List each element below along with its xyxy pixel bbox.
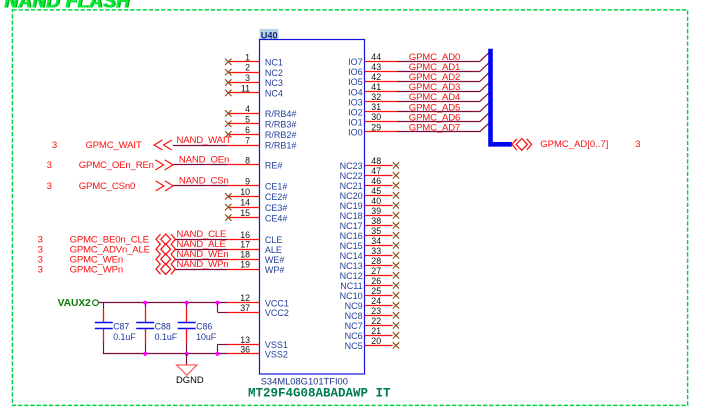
svg-text:1: 1 [245, 52, 250, 62]
svg-text:C86: C86 [196, 322, 212, 332]
svg-text:25: 25 [371, 286, 381, 296]
svg-text:3: 3 [47, 181, 52, 192]
svg-text:NC12: NC12 [340, 271, 363, 281]
svg-text:8: 8 [245, 155, 250, 165]
svg-text:IO4: IO4 [348, 87, 363, 97]
svg-text:R/RB1#: R/RB1# [265, 141, 297, 151]
svg-text:18: 18 [240, 250, 250, 260]
svg-text:29: 29 [371, 122, 381, 132]
svg-text:42: 42 [371, 72, 381, 82]
svg-text:IO7: IO7 [348, 57, 363, 67]
svg-text:23: 23 [371, 306, 381, 316]
svg-text:NC4: NC4 [265, 89, 283, 99]
svg-text:S34ML08G101TFI00: S34ML08G101TFI00 [261, 377, 348, 387]
svg-text:NAND_WAIT: NAND_WAIT [177, 135, 232, 146]
svg-text:VCC2: VCC2 [265, 308, 289, 318]
svg-text:CE3#: CE3# [265, 203, 288, 213]
svg-text:NC14: NC14 [340, 251, 363, 261]
svg-text:C88: C88 [155, 322, 171, 332]
svg-text:44: 44 [371, 52, 381, 62]
svg-text:U40: U40 [261, 31, 278, 41]
svg-text:R/RB4#: R/RB4# [265, 109, 297, 119]
svg-text:RE#: RE# [265, 161, 283, 171]
svg-text:3: 3 [635, 139, 640, 150]
svg-text:NC8: NC8 [345, 311, 363, 321]
svg-text:30: 30 [371, 112, 381, 122]
svg-text:DGND: DGND [176, 374, 204, 385]
svg-text:10uF: 10uF [196, 332, 217, 342]
svg-text:37: 37 [240, 303, 250, 313]
svg-text:NC23: NC23 [340, 161, 363, 171]
svg-text:NC1: NC1 [265, 58, 283, 68]
svg-text:VSS2: VSS2 [265, 350, 288, 360]
svg-text:43: 43 [371, 62, 381, 72]
svg-text:NC6: NC6 [345, 331, 363, 341]
svg-text:NC17: NC17 [340, 221, 363, 231]
svg-text:6: 6 [245, 125, 250, 135]
svg-text:R/RB3#: R/RB3# [265, 120, 297, 130]
svg-text:NAND FLASH: NAND FLASH [4, 0, 131, 12]
svg-text:32: 32 [371, 92, 381, 102]
svg-text:VCC1: VCC1 [265, 298, 289, 308]
svg-text:NC13: NC13 [340, 261, 363, 271]
svg-text:45: 45 [371, 186, 381, 196]
svg-text:NC21: NC21 [340, 181, 363, 191]
svg-text:NAND_OEn: NAND_OEn [179, 155, 229, 166]
svg-text:R/RB2#: R/RB2# [265, 130, 297, 140]
svg-text:12: 12 [240, 293, 250, 303]
svg-text:IO5: IO5 [348, 77, 363, 87]
svg-text:GPMC_OEn_REn: GPMC_OEn_REn [79, 160, 154, 171]
svg-text:NAND_CSn: NAND_CSn [179, 176, 229, 187]
svg-text:NAND_WPn: NAND_WPn [177, 259, 229, 270]
svg-text:11: 11 [241, 83, 250, 93]
svg-text:NC20: NC20 [340, 191, 363, 201]
svg-text:10: 10 [240, 187, 250, 197]
svg-text:14: 14 [240, 198, 250, 208]
svg-text:19: 19 [240, 260, 250, 270]
svg-text:15: 15 [240, 208, 250, 218]
svg-text:CLE: CLE [265, 235, 283, 245]
svg-text:17: 17 [240, 240, 250, 250]
svg-text:47: 47 [371, 166, 381, 176]
svg-text:3: 3 [245, 73, 250, 83]
svg-text:27: 27 [371, 266, 381, 276]
svg-text:NC5: NC5 [345, 341, 363, 351]
svg-text:0.1uF: 0.1uF [155, 332, 178, 342]
svg-text:ALE: ALE [265, 245, 282, 255]
svg-text:CE2#: CE2# [265, 192, 288, 202]
svg-text:IO2: IO2 [348, 107, 363, 117]
svg-text:33: 33 [371, 246, 381, 256]
svg-text:7: 7 [245, 136, 250, 146]
svg-text:31: 31 [371, 102, 381, 112]
svg-text:20: 20 [371, 336, 381, 346]
svg-text:C87: C87 [113, 322, 129, 332]
svg-text:22: 22 [371, 316, 381, 326]
svg-text:CE4#: CE4# [265, 213, 288, 223]
svg-text:9: 9 [245, 176, 250, 186]
svg-text:WE#: WE# [265, 255, 285, 265]
svg-text:39: 39 [371, 206, 381, 216]
svg-text:NC3: NC3 [265, 78, 283, 88]
svg-text:NC18: NC18 [340, 211, 363, 221]
svg-text:46: 46 [371, 176, 381, 186]
svg-text:NC22: NC22 [340, 171, 363, 181]
svg-text:4: 4 [245, 104, 250, 114]
svg-text:5: 5 [245, 114, 250, 124]
svg-text:41: 41 [371, 82, 381, 92]
svg-text:IO3: IO3 [348, 97, 363, 107]
svg-text:NC19: NC19 [340, 201, 363, 211]
svg-text:35: 35 [371, 226, 381, 236]
svg-text:NC9: NC9 [345, 301, 363, 311]
svg-text:3: 3 [52, 140, 57, 151]
svg-text:WP#: WP# [265, 265, 285, 275]
svg-text:GPMC_AD7: GPMC_AD7 [409, 122, 460, 133]
svg-text:2: 2 [245, 63, 250, 73]
svg-text:16: 16 [240, 230, 250, 240]
svg-text:36: 36 [240, 344, 250, 354]
svg-text:38: 38 [371, 216, 381, 226]
svg-text:NC16: NC16 [340, 231, 363, 241]
svg-text:28: 28 [371, 256, 381, 266]
svg-text:GPMC_AD[0..7]: GPMC_AD[0..7] [540, 139, 608, 150]
svg-text:NC10: NC10 [340, 291, 363, 301]
svg-text:34: 34 [371, 236, 381, 246]
svg-text:GPMC_WPn: GPMC_WPn [70, 264, 123, 275]
svg-text:GPMC_CSn0: GPMC_CSn0 [79, 181, 136, 192]
svg-text:VAUX2: VAUX2 [58, 298, 92, 309]
svg-text:IO6: IO6 [348, 67, 363, 77]
svg-text:IO1: IO1 [348, 117, 363, 127]
svg-text:21: 21 [371, 326, 381, 336]
svg-text:26: 26 [371, 276, 381, 286]
svg-text:IO0: IO0 [348, 128, 363, 138]
svg-text:3: 3 [47, 160, 52, 171]
svg-text:NC11: NC11 [340, 281, 362, 291]
svg-text:CE1#: CE1# [265, 182, 288, 192]
svg-text:NC15: NC15 [340, 241, 363, 251]
svg-text:GPMC_WAIT: GPMC_WAIT [85, 140, 141, 151]
svg-text:NC2: NC2 [265, 68, 283, 78]
svg-text:3: 3 [38, 264, 43, 275]
svg-text:0.1uF: 0.1uF [113, 332, 136, 342]
svg-text:NC7: NC7 [345, 321, 363, 331]
svg-text:48: 48 [371, 156, 381, 166]
svg-text:40: 40 [371, 196, 381, 206]
svg-text:24: 24 [371, 296, 381, 306]
svg-text:MT29F4G08ABADAWP IT: MT29F4G08ABADAWP IT [248, 386, 391, 400]
